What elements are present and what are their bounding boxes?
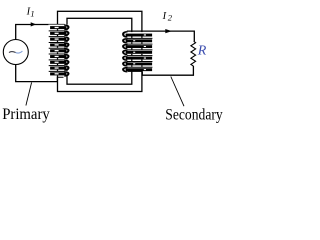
wire: resistor bottom to secondary coil (142, 66, 193, 75)
leader line for Primary label (26, 83, 32, 106)
svg-text:R: R (197, 43, 207, 58)
core outer rectangle (58, 11, 142, 91)
resistor R zigzag (191, 41, 196, 66)
wire: secondary top lead with I2 to resistor (127, 31, 195, 41)
AC source sine symbol (9, 51, 16, 54)
wire: source bottom to primary return (16, 64, 58, 81)
svg-text:Primary: Primary (2, 106, 50, 123)
arrow for I2 current (165, 29, 172, 33)
svg-text:I: I (162, 11, 167, 22)
AC source (3, 40, 28, 65)
arrow for I1 current (31, 22, 36, 26)
wire: source top to primary coil (16, 25, 65, 40)
svg-text:1: 1 (30, 9, 34, 19)
wire: primary coil bottom tail (57, 77, 63, 82)
svg-text:2: 2 (168, 13, 173, 23)
wire: secondary coil bottom tail (128, 70, 143, 72)
core inner rectangle (67, 18, 132, 84)
svg-text:Secondary: Secondary (165, 107, 223, 124)
secondary coil winding (122, 31, 154, 72)
primary coil winding (48, 24, 70, 76)
leader line for Secondary label (171, 77, 184, 107)
